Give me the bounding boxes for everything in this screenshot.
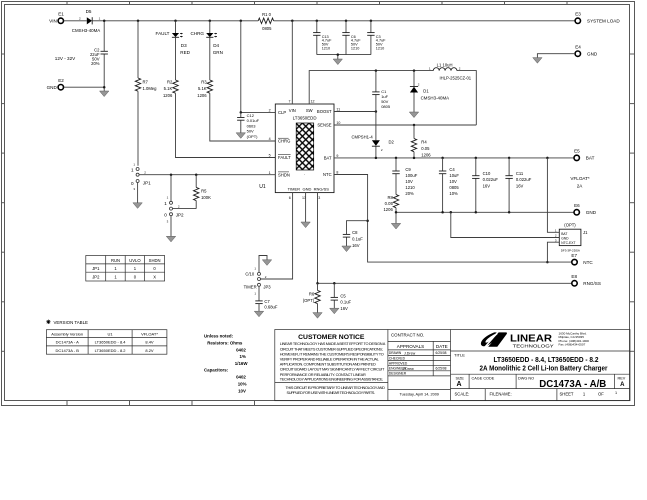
wire R1 to E3 SYSTEM LOAD rail [274, 20, 575, 22]
svg-text:DF3-3P-2DSA: DF3-3P-2DSA [561, 248, 580, 252]
svg-text:VFLOAT*: VFLOAT* [141, 331, 158, 336]
ground symbol below C12 [236, 133, 245, 139]
wire J1 pin1 to BAT rail [547, 158, 559, 232]
wire R7 to JP1 pin1 [137, 91, 139, 166]
svg-text:0402: 0402 [236, 375, 246, 380]
svg-text:C11: C11 [516, 171, 524, 176]
wire D4 branch from rail [209, 21, 211, 33]
wire D4 to R3 [209, 37, 211, 80]
svg-text:0: 0 [131, 181, 134, 186]
resistor R1 0 ohm (in VIN rail) [258, 12, 273, 31]
wire U1 NTC pin to E7 [334, 175, 572, 263]
diode D1 CMSH3-40MA (catch diode) [410, 71, 449, 112]
wire J1 pin2 to GND rail [451, 212, 560, 237]
svg-text:J1: J1 [583, 230, 588, 235]
svg-text:FAULT: FAULT [156, 31, 170, 36]
table: jumper settings (RUN/UVLO/SHDN) [86, 256, 165, 282]
svg-text:5.1K: 5.1K [164, 86, 173, 91]
svg-text:SHDN: SHDN [149, 258, 161, 263]
terminal E3 SYSTEM LOAD [575, 12, 620, 24]
terminal E1 VIN [49, 12, 64, 24]
capacitor C8 0.1uF [343, 230, 363, 248]
svg-text:C8: C8 [352, 230, 358, 235]
svg-text:-: - [304, 173, 305, 177]
svg-text:VIN: VIN [289, 108, 296, 113]
svg-text:DC1473A - B: DC1473A - B [56, 348, 80, 353]
svg-text:E2: E2 [58, 78, 64, 83]
junction dot BOOST node [375, 110, 378, 113]
version table [46, 330, 166, 355]
svg-text:1.0Meg: 1.0Meg [143, 86, 158, 91]
resistor R7 1.0Meg [135, 78, 157, 91]
svg-text:NTC-EXT: NTC-EXT [561, 241, 575, 245]
svg-text:NTC: NTC [323, 172, 332, 177]
svg-text:FAULT: FAULT [278, 155, 291, 160]
wire E4 to ground [537, 54, 575, 58]
svg-text:1210: 1210 [376, 47, 384, 51]
svg-text:0: 0 [164, 212, 167, 217]
svg-text:0.68uF: 0.68uF [264, 304, 277, 309]
svg-text:D2: D2 [389, 140, 395, 145]
svg-text:1206: 1206 [163, 93, 173, 98]
svg-text:SW: SW [306, 108, 313, 113]
title block: title section [451, 351, 631, 372]
svg-text:L1 10uH: L1 10uH [437, 62, 453, 67]
svg-text:5.1K: 5.1K [198, 86, 207, 91]
drawing frame outer border [2, 2, 635, 406]
svg-text:E4: E4 [575, 45, 581, 50]
junction dot SENSE/R4 [413, 124, 416, 127]
svg-text:8.2V: 8.2V [145, 348, 154, 353]
svg-text:BAT: BAT [586, 156, 595, 161]
capacitor C10 0.022uF [472, 158, 498, 212]
svg-text:1206: 1206 [197, 93, 207, 98]
svg-text:APPROVALS: APPROVALS [397, 344, 425, 349]
svg-text:0.022uF: 0.022uF [516, 177, 532, 182]
svg-text:D1: D1 [423, 88, 429, 93]
title block: customer notice [275, 334, 388, 395]
jumper JP2 (UVLO select) [164, 175, 196, 237]
frame zone ticks left [1, 54, 4, 351]
svg-text:10V: 10V [405, 179, 413, 184]
ground symbol below D1 [409, 112, 418, 118]
title block: contract no / approvals [388, 332, 451, 396]
svg-text:R2: R2 [167, 80, 173, 85]
svg-text:NTC: NTC [583, 260, 593, 265]
svg-text:16V: 16V [516, 183, 524, 188]
svg-text:4: 4 [269, 137, 271, 141]
terminal E4 GND [575, 45, 598, 57]
svg-text:1%: 1% [240, 354, 246, 359]
capacitor C2 22uF [90, 48, 108, 67]
wire U1 RNG/SS pin down and to E8 [318, 193, 572, 284]
svg-text:TIMER: TIMER [288, 186, 301, 191]
svg-text:LT3650EDD: LT3650EDD [293, 116, 317, 121]
svg-text:JP2: JP2 [92, 275, 100, 280]
junction dot CLP/C12 [240, 111, 243, 114]
svg-text:CAGE CODE: CAGE CODE [472, 377, 495, 381]
svg-text:Capacitors:: Capacitors: [204, 368, 229, 373]
terminal E5 BAT [574, 148, 595, 160]
wire U1 BOOST pin to C1/D2 [334, 111, 376, 113]
svg-text:(OPT): (OPT) [303, 298, 315, 303]
svg-text:LT3650EDD - 8.4: LT3650EDD - 8.4 [95, 340, 127, 345]
resistor R5 100K [194, 175, 212, 209]
svg-text:C/10: C/10 [245, 272, 255, 277]
resistor R6 (OPT) [303, 283, 320, 312]
svg-text:REV: REV [618, 377, 626, 381]
LED D4 GRN (CHRG) [190, 31, 222, 55]
svg-text:(OPT): (OPT) [247, 134, 259, 139]
svg-text:CLP: CLP [278, 110, 286, 115]
notes: unless noted block [204, 333, 248, 393]
svg-text:C4: C4 [449, 167, 455, 172]
wire R3 to U1 CHRG pin [210, 93, 275, 141]
junction dots on SW node [375, 69, 416, 72]
svg-text:FILENAME:: FILENAME: [490, 391, 512, 396]
svg-text:RUN: RUN [111, 258, 120, 263]
terminal E6 GND [574, 203, 597, 215]
frame zone ticks bottom [67, 401, 255, 406]
svg-text:DRAWN: DRAWN [389, 351, 402, 355]
svg-text:CUSTOMER NOTICE: CUSTOMER NOTICE [298, 334, 365, 341]
svg-text:CMSH3-40MA: CMSH3-40MA [421, 96, 450, 101]
svg-text:6/25/08: 6/25/08 [436, 351, 447, 355]
svg-text:100K: 100K [201, 195, 211, 200]
ground symbol below JP1 [133, 203, 142, 209]
svg-text:E6: E6 [574, 203, 580, 208]
frame zone ticks top [67, 1, 567, 4]
capacitor C1 1uF (boost) [372, 71, 391, 112]
svg-text:12: 12 [311, 100, 315, 104]
svg-text:1/16W: 1/16W [235, 361, 249, 366]
svg-text:10uF: 10uF [449, 173, 459, 178]
svg-text:DATE: DATE [436, 344, 448, 349]
wire U1 BAT pin to E5 (BAT rail) [334, 157, 574, 159]
capacitor C3 4.7uF [367, 21, 386, 55]
svg-text:0.1uF: 0.1uF [352, 237, 363, 242]
svg-text:10V: 10V [449, 179, 457, 184]
jumper JP1 (RUN/SHDN select) [131, 162, 151, 203]
svg-text:RED: RED [180, 50, 190, 55]
svg-text:D4: D4 [213, 43, 219, 48]
ground symbol for E4 [533, 58, 542, 64]
svg-text:CHRG: CHRG [278, 139, 290, 144]
svg-text:A: A [457, 381, 462, 388]
svg-text:R3: R3 [201, 80, 207, 85]
version table heading [46, 320, 88, 325]
svg-text:3: 3 [318, 196, 320, 200]
title block: scale/filename/sheet row [451, 389, 631, 401]
wire GND rail to E6 [396, 212, 574, 223]
LED D3 RED (FAULT) [156, 31, 191, 55]
wire L1 to SENSE rail corner [457, 71, 476, 125]
svg-text:0.1uF: 0.1uF [340, 300, 351, 305]
svg-text:CONTRACT NO.: CONTRACT NO. [391, 332, 424, 337]
wire R7 branch from rail [137, 21, 139, 78]
resistor R4 0.05 (sense) [411, 125, 431, 158]
junction dot caps common ground [337, 53, 340, 56]
svg-text:0.05: 0.05 [385, 201, 394, 206]
svg-text:20%: 20% [91, 61, 100, 66]
ground symbol below E2/C2 [100, 91, 109, 97]
U1 exposed pad (crosshatch) [296, 123, 314, 177]
title block: LTC logo [481, 331, 589, 348]
wire C2 branch down from VIN rail [103, 21, 105, 87]
svg-text:X: X [153, 275, 156, 280]
svg-text:R4: R4 [421, 140, 427, 145]
wire CLP junction to U1 CLP pin [241, 111, 275, 113]
svg-text:12V - 32V: 12V - 32V [55, 56, 76, 61]
terminal E8 RNG/SS [571, 274, 601, 286]
junction dots on RNG/SS net [316, 282, 335, 285]
wire CLP branch from rail [240, 21, 242, 113]
svg-text:TECHNOLOGY APPLICATIONS ENGINE: TECHNOLOGY APPLICATIONS ENGINEERING FOR … [280, 377, 384, 382]
svg-text:A: A [620, 382, 625, 388]
svg-text:GRN: GRN [213, 50, 223, 55]
wire R2 to U1 FAULT pin [176, 93, 276, 157]
svg-text:0402: 0402 [236, 347, 246, 352]
svg-text:1: 1 [131, 167, 134, 172]
svg-text:1210: 1210 [405, 185, 415, 190]
junction dot C2/E2/ground [103, 86, 106, 89]
svg-text:Tuesday, April 14, 2009: Tuesday, April 14, 2009 [399, 392, 438, 396]
op-amp / IC U1 LT3650EDD body [259, 104, 334, 193]
svg-text:D3: D3 [181, 43, 187, 48]
svg-text:BAT: BAT [324, 156, 332, 161]
svg-text:J.Drew: J.Drew [404, 352, 416, 356]
diode D5 CMSH3-40MA [72, 9, 101, 33]
wire D5 cathode to VIN rail corner [92, 20, 104, 22]
svg-text:Unless noted:: Unless noted: [204, 333, 234, 338]
jumper JP3 (TIMER / C-10 select) [244, 256, 272, 301]
svg-text:R5: R5 [201, 189, 207, 194]
svg-text:JP3: JP3 [263, 285, 271, 290]
svg-text:R7: R7 [143, 80, 149, 85]
capacitor C6 4.7uF [342, 21, 361, 55]
wire D3 to R2 [175, 37, 177, 80]
ground symbol below C8 [342, 246, 351, 252]
junction dot NTC/C8 stub [366, 219, 369, 222]
svg-text:U1: U1 [108, 331, 114, 336]
ground symbol below C7 [254, 311, 263, 317]
resistor R8 0.05 [383, 195, 398, 213]
svg-text:SCALE:: SCALE: [455, 391, 470, 396]
svg-text:CMSH3-40MA: CMSH3-40MA [72, 28, 101, 33]
capacitor C5 0.1uF [331, 283, 352, 311]
wire D3 branch from rail [175, 21, 177, 33]
svg-text:LT3650EDD - 8.4, LT3650EDD - 8: LT3650EDD - 8.4, LT3650EDD - 8.2 [494, 357, 599, 364]
svg-text:GND: GND [587, 52, 598, 57]
svg-text:APPROVED: APPROVED [389, 362, 408, 366]
svg-text:OF: OF [598, 391, 604, 396]
capacitor C13 4.7uF [313, 21, 332, 55]
ground symbol below R6 [313, 313, 322, 319]
resistor R3 5.1K [197, 80, 212, 98]
wire J1 pin3 to NTC net [547, 242, 559, 262]
svg-text:0.05: 0.05 [421, 146, 430, 151]
svg-text:2A Monolithic 2 Cell Li-Ion B: 2A Monolithic 2 Cell Li-Ion Battery Char… [480, 365, 608, 372]
svg-text:JP2: JP2 [176, 212, 184, 217]
wire joining C13/C6/C3 bottoms [317, 55, 371, 59]
svg-text:E7: E7 [571, 253, 577, 258]
junction dots on GND rail [395, 211, 511, 214]
svg-text:IHLP-2525CZ-01: IHLP-2525CZ-01 [439, 75, 471, 80]
svg-text:CHRG: CHRG [190, 31, 204, 36]
svg-text:10V: 10V [238, 389, 246, 394]
terminal E2 GND [47, 78, 65, 90]
svg-text:E5: E5 [574, 148, 580, 153]
svg-text:C5: C5 [340, 293, 346, 298]
svg-text:VIN: VIN [49, 19, 57, 24]
svg-text:8.4V: 8.4V [145, 340, 154, 345]
svg-text:Resistors: Ohms: Resistors: Ohms [207, 340, 243, 345]
junction dots on VIN rail [103, 20, 242, 23]
svg-text:TECHNOLOGY: TECHNOLOGY [513, 344, 555, 349]
svg-text:TITLE: TITLE [454, 353, 465, 358]
capacitor C4 10uF [439, 158, 459, 212]
wire SHDN rail JP1 to U1 [139, 174, 275, 176]
wire VIN rail (input side) to R1 [104, 20, 258, 22]
terminal E7 NTC [571, 253, 593, 265]
title block: size/cage/dwg no/rev row [451, 374, 631, 390]
capacitor C12 0.01uF (OPT) [237, 112, 260, 138]
ground symbol for JP3 C/10 position [262, 260, 271, 266]
svg-text:1: 1 [615, 391, 617, 395]
svg-text:R6: R6 [309, 292, 315, 297]
svg-text:C10: C10 [483, 171, 491, 176]
inductor L1 10uH IHLP-2525CZ-01 [429, 62, 472, 80]
svg-text:R8: R8 [387, 195, 393, 200]
svg-text:D5: D5 [86, 9, 92, 14]
svg-text:6/25/08: 6/25/08 [436, 367, 447, 371]
diode D2 CMPSH1-4 (boost diode) [352, 112, 395, 158]
svg-text:5: 5 [269, 154, 271, 158]
svg-text:20%: 20% [405, 191, 414, 196]
svg-text:R1 0: R1 0 [262, 12, 272, 17]
svg-text:16V: 16V [483, 183, 491, 188]
svg-text:JP1: JP1 [143, 181, 151, 186]
capacitor C7 0.68uF [255, 299, 278, 311]
svg-text:JP1: JP1 [92, 266, 100, 271]
ground symbol below input caps [333, 59, 342, 65]
svg-text:1210: 1210 [351, 47, 359, 51]
wire U1 TIMER pin to JP3 [261, 193, 293, 279]
svg-text:1206: 1206 [383, 207, 393, 212]
svg-text:C9: C9 [405, 167, 411, 172]
U1 pin numbers [269, 100, 341, 200]
svg-text:GND: GND [586, 210, 597, 215]
junction dots on SHDN rail [170, 173, 198, 176]
drawing frame inner border [5, 5, 630, 401]
capacitor C11 0.022uF [505, 158, 531, 212]
wire U1 VIN pin to rail [291, 21, 293, 104]
svg-text:2: 2 [269, 109, 271, 113]
ground symbol below GND rail [391, 223, 400, 229]
svg-text:SIZE: SIZE [456, 377, 465, 381]
svg-text:0805: 0805 [449, 185, 459, 190]
svg-text:10%: 10% [238, 382, 247, 387]
svg-text:C7: C7 [264, 299, 270, 304]
svg-text:E1: E1 [58, 12, 64, 17]
svg-text:1206: 1206 [421, 153, 431, 158]
wire U1 SW pin up and right (SW node) [309, 71, 433, 104]
resistor R2 5.1K [163, 80, 178, 98]
ground symbol below U1 GND pin [301, 222, 310, 228]
svg-text:BAT: BAT [561, 232, 567, 236]
svg-text:SHDN: SHDN [278, 172, 290, 177]
node label VFLOAT* 2A [570, 176, 590, 189]
svg-text:VERSION TABLE: VERSION TABLE [54, 320, 89, 325]
svg-text:GND: GND [561, 236, 569, 240]
svg-text:RNG/SS: RNG/SS [314, 186, 330, 191]
svg-text:Assembly Version: Assembly Version [51, 331, 83, 336]
svg-text:E3: E3 [575, 12, 581, 17]
svg-text:10%: 10% [449, 191, 458, 196]
svg-text:DC1473A - A: DC1473A - A [56, 340, 79, 345]
svg-text:0805: 0805 [381, 104, 391, 109]
wire E2 to C2 bottom junction [64, 87, 104, 91]
svg-text:7: 7 [289, 100, 291, 104]
svg-text:Fax: (408)434-0507: Fax: (408)434-0507 [559, 343, 586, 347]
junction dots on BAT rail [375, 157, 549, 160]
svg-text:RNG/SS: RNG/SS [583, 281, 601, 286]
svg-text:(OPT): (OPT) [564, 223, 576, 228]
svg-text:16V: 16V [352, 243, 360, 248]
svg-text:16V: 16V [340, 306, 348, 311]
svg-text:SHEET: SHEET [560, 391, 574, 396]
title block: outer box and dividers [275, 330, 630, 401]
capacitor C9 100uF [392, 158, 417, 196]
wire U1 GND pin to ground [305, 193, 307, 222]
svg-text:SUPPLIED FOR USE WITH LINEAR T: SUPPLIED FOR USE WITH LINEAR TECHNOLOGY … [287, 390, 376, 395]
svg-text:0805: 0805 [262, 26, 272, 31]
svg-text:2A: 2A [577, 183, 584, 188]
svg-text:VFLOAT*: VFLOAT* [570, 176, 590, 181]
svg-text:100uF: 100uF [405, 173, 417, 178]
svg-text:LT3650EDD - 8.2: LT3650EDD - 8.2 [95, 348, 127, 353]
ground symbol below JP2 [166, 236, 175, 242]
svg-text:1210: 1210 [322, 47, 330, 51]
junction dots on system load rail [291, 20, 372, 23]
svg-text:SYSTEM LOAD: SYSTEM LOAD [587, 19, 620, 24]
svg-text:SENSE: SENSE [317, 123, 331, 128]
svg-text:DWG NO: DWG NO [518, 377, 534, 381]
svg-text:GND: GND [302, 186, 311, 191]
ground symbol below C5 [330, 308, 339, 314]
svg-text:6: 6 [289, 196, 291, 200]
svg-text:DESIGNER: DESIGNER [389, 372, 407, 376]
svg-text:TIMER: TIMER [244, 285, 257, 290]
connector J1 DF3-3P-2DSA (OPT) [555, 223, 588, 253]
svg-text:CHECKED: CHECKED [389, 356, 406, 360]
wire C8 stub [347, 221, 368, 246]
svg-text:CMPSH1-4: CMPSH1-4 [352, 134, 374, 139]
wire E1 to D5 anode [64, 20, 87, 22]
svg-text:UVLO: UVLO [129, 258, 141, 263]
svg-text:GND: GND [47, 85, 58, 90]
svg-text:E8: E8 [571, 274, 577, 279]
wire U1 SENSE pin to L1 output [334, 124, 476, 126]
frame zone ticks right [630, 54, 634, 351]
svg-text:J.Drew: J.Drew [403, 367, 415, 371]
svg-text:BOOST: BOOST [317, 109, 332, 114]
junction dot J1 pin3 / NTC [546, 261, 549, 264]
svg-text:1: 1 [164, 201, 167, 206]
svg-text:U1: U1 [259, 184, 266, 190]
svg-text:0.022uF: 0.022uF [483, 177, 499, 182]
